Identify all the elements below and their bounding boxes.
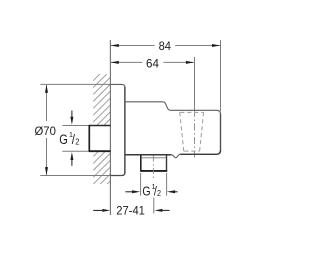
dimension 64	[111, 61, 194, 63]
svg-text:G: G	[59, 132, 68, 147]
dimension D70 extension bottom	[40, 175, 110, 177]
svg-text:64: 64	[146, 57, 159, 71]
dimension G1/2 bottom: right arrow	[175, 191, 178, 193]
holder cone dashed: bottom	[184, 150, 199, 152]
inlet stub: left edge	[88, 125, 90, 152]
inlet stub (into wall): top edge	[89, 125, 111, 127]
holder right edge (shadow)	[220, 114, 222, 152]
dimension G1/2 left: extension lines	[62, 125, 89, 127]
body bottom edge (shadow)	[125, 154, 171, 156]
svg-text:Ø70: Ø70	[35, 124, 57, 138]
outlet stub: bottom edge	[140, 170, 167, 172]
outlet stub: left edge	[140, 155, 142, 171]
inlet stub: bottom edge	[89, 150, 111, 152]
svg-text:2: 2	[75, 137, 80, 146]
extension line holder centre (64 dim)	[194, 57, 196, 110]
svg-text:84: 84	[159, 39, 172, 53]
dimension 27-41	[93, 209, 102, 211]
holder centre line (dash-dot)	[194, 110, 196, 158]
holder cone dashed: top	[180, 111, 203, 113]
dimension G1/2 left: top arrow (points down)	[71, 111, 73, 118]
outlet stub: right edge	[166, 155, 168, 171]
flange (escutcheon) outline	[110, 84, 125, 175]
svg-text:2: 2	[157, 189, 161, 198]
dimension D70 line + arrows	[46, 85, 48, 175]
holder cone dashed: left slant	[180, 112, 184, 151]
wall face line	[109, 40, 111, 215]
flange right edge (shadow)	[124, 87, 126, 173]
svg-text:G: G	[142, 183, 150, 198]
holder bottom edge (shadow)	[180, 150, 220, 154]
outlet stub: shoulder line	[141, 157, 166, 159]
dimension 84	[111, 45, 220, 47]
outlet centre line (dash-dot)	[152, 156, 154, 181]
wall hatch strokes	[93, 56, 111, 205]
flange bottom edge (shadow)	[110, 173, 125, 176]
body top edge + step + holder outline + bottom groove	[125, 102, 221, 158]
dimension G1/2 bottom: left arrow	[125, 191, 132, 193]
extension line right (84 dim)	[220, 40, 222, 111]
holder cone dashed: right slant	[200, 112, 204, 151]
dimension G1/2 bottom: extension lines	[140, 173, 142, 196]
dimension D70 extension top	[40, 83, 110, 85]
dimension G1/2 left: bottom arrow (points up)	[71, 159, 73, 166]
svg-text:27-41: 27-41	[116, 204, 145, 218]
